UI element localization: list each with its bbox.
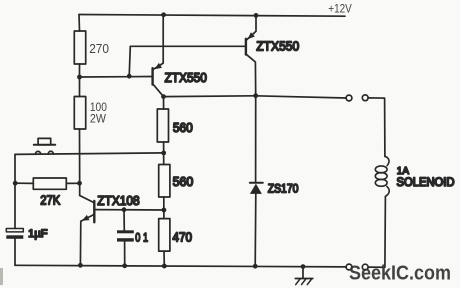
node: left rail / 27K (13, 181, 18, 186)
svg-text:+12V: +12V (328, 2, 352, 15)
wire: collector bus from Q1 to switch contact (164, 96, 347, 98)
node: ground stub / rail (301, 264, 306, 269)
resistor 100 2W (74, 97, 85, 130)
node A: 270 / 100 2W / Q1 base (77, 75, 82, 80)
svg-text:ZTX550: ZTX550 (256, 39, 299, 54)
zener diode ZS170 (250, 183, 263, 194)
svg-text:1µF: 1µF (28, 228, 48, 240)
svg-text:ZTX550: ZTX550 (165, 70, 207, 85)
wire: solenoid bottom down to lower contact (368, 196, 385, 267)
wire: +12V top supply rail (79, 15, 345, 17)
svg-text:SeekIC.com: SeekIC.com (349, 262, 451, 284)
resistor 27K (33, 178, 66, 189)
wire: Q3 base to node D (96, 209, 164, 211)
wire: 560 upper stub (163, 97, 165, 109)
wire: 100 2W down to node B (crosses button wire, no join) (79, 129, 81, 196)
wire: push button line from left rail to node C (15, 153, 164, 155)
svg-text:2W: 2W (90, 111, 106, 125)
resistor 560 (lower) (159, 165, 170, 198)
wire: zener to bottom rail (254, 194, 257, 266)
svg-text:560: 560 (173, 174, 194, 189)
push button S1 (34, 138, 55, 154)
node: rail / Q2 emitter (254, 13, 259, 18)
wire: 0.1 cap top stub (123, 210, 125, 231)
svg-text:SOLENOID: SOLENOID (397, 177, 455, 189)
connector contact (top left, open circle) (346, 95, 352, 101)
resistor 560 (upper) (157, 109, 168, 142)
node: Q3 emitter / rail (78, 263, 83, 268)
wire: 27K left lead (15, 182, 33, 184)
label 100 2W (90, 100, 107, 125)
transistor Q3 ZTX108 (NPN) (80, 196, 95, 266)
node: 0.1 cap / rail (122, 263, 127, 268)
wire: 1uF to bottom rail corner (14, 239, 16, 265)
node: Q1 collector (161, 94, 166, 99)
node: Q1 base / Q2 base link (127, 74, 132, 79)
wire: bottom ground rail (15, 265, 346, 267)
wire: 27K right lead to node B (66, 182, 79, 184)
node: zener / rail (253, 264, 258, 269)
wire: base link up and right to Q2 base (129, 46, 245, 76)
transistor Q1 ZTX550 (PNP) (153, 15, 164, 97)
ground symbol (295, 267, 313, 285)
svg-text:ZTX108: ZTX108 (97, 193, 139, 208)
connector contact (bottom left, open circle) (346, 264, 352, 270)
svg-text:560: 560 (173, 120, 193, 135)
node: 470 / rail (162, 264, 167, 269)
capacitor 1uF (electrolytic) (6, 229, 23, 239)
svg-text:470: 470 (173, 230, 193, 245)
svg-text:270: 270 (89, 41, 109, 56)
wire: 560 lower to node D (163, 197, 165, 219)
wire: zener branch from collector bus (255, 96, 257, 183)
svg-text:0 1: 0 1 (135, 230, 148, 244)
svg-text:27K: 27K (40, 192, 60, 207)
wire: Q1 base wire from node A to Q1 (80, 76, 153, 79)
connector contact (bottom right, open circle) (362, 264, 368, 270)
label 1A SOLENOID (397, 165, 455, 189)
wire: 560 upper to node C (163, 142, 165, 165)
wire: 270 to node A (79, 64, 81, 97)
wire: left rail top down to 1uF (14, 154, 16, 228)
node D: Q3 base / 560 / 470 (162, 208, 167, 213)
wire: contact to solenoid top (368, 98, 385, 157)
resistor 470 (159, 219, 170, 252)
transistor Q2 ZTX550 (PNP) (246, 15, 256, 95)
node C: button wire / 560 / 560 (161, 151, 166, 156)
capacitor 0.1 (117, 230, 134, 241)
svg-text:1A: 1A (397, 165, 409, 177)
resistor 270 (74, 31, 85, 64)
svg-text:ZS170: ZS170 (268, 182, 299, 196)
node: base wire / 0.1 cap (122, 207, 127, 212)
wire: rail corner down to R 270 (78, 15, 81, 32)
node: rail / Q1 emitter (161, 12, 166, 17)
node: Q2 collector (253, 93, 258, 98)
wire: 470 to ground rail (163, 251, 165, 266)
connector contact (top right, open circle) (362, 95, 368, 101)
scan artifact: left edge smudge (0, 268, 3, 285)
node B: 27K / Q3 collector (77, 181, 82, 186)
wire: 0.1 cap bottom stub (124, 242, 126, 266)
inductor L1 1A solenoid coil (375, 156, 389, 196)
